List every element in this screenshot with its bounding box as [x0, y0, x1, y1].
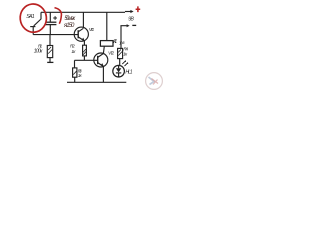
svg-text:R2: R2: [70, 44, 75, 49]
svg-text:ув: ув: [119, 40, 126, 45]
svg-text:я150: я150: [63, 23, 75, 29]
svg-text:9В: 9В: [128, 17, 134, 23]
svg-text:HL1: HL1: [125, 69, 132, 75]
svg-text:50мах: 50мах: [64, 16, 76, 22]
svg-text:100к: 100к: [34, 49, 43, 55]
svg-text:SA1: SA1: [26, 14, 34, 20]
svg-text:VT2: VT2: [108, 50, 114, 55]
svg-text:К1: К1: [113, 39, 117, 45]
svg-text:VT1: VT1: [89, 27, 95, 32]
